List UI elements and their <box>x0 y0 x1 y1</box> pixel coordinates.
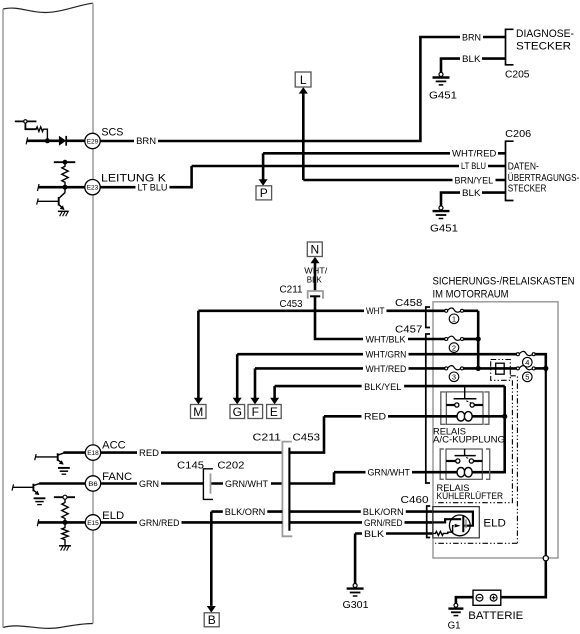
ELD second bar <box>465 519 467 528</box>
label BLK (ELD) <box>362 529 386 539</box>
wire stub above connector (N) <box>314 263 317 291</box>
svg-text:BLK: BLK <box>462 188 481 198</box>
relay U1 contact common from BLK/YEL <box>464 386 466 399</box>
svg-text:STECKER: STECKER <box>516 41 571 53</box>
wire WHT/GRN from G to fuse 4 <box>237 353 516 356</box>
inline connector C453 half (tall) <box>288 448 290 531</box>
wire GRN/WHT continues to fuse box <box>289 472 334 483</box>
svg-text:KÜHLERLÜFTER: KÜHLERLÜFTER <box>437 491 504 502</box>
arrowhead into N <box>311 257 320 264</box>
svg-text:SICHERUNGS-/RELAISKASTEN: SICHERUNGS-/RELAISKASTEN <box>433 276 575 288</box>
label BRN/YEL (C206) <box>453 175 496 185</box>
svg-text:C211: C211 <box>253 433 282 444</box>
inline connector C202 half <box>210 474 212 494</box>
wire GRN/WHT through relay2 coil <box>334 471 482 474</box>
svg-text:C205: C205 <box>505 70 530 81</box>
terminal tick E23 <box>38 184 40 191</box>
junction dot relay1 coil output <box>502 414 507 419</box>
svg-text:E18: E18 <box>87 450 99 457</box>
ELD box <box>433 507 480 538</box>
fuse F2 <box>445 336 464 340</box>
svg-text:B: B <box>208 613 216 627</box>
relay 2 connector brackets <box>440 449 490 479</box>
svg-text:4: 4 <box>525 358 529 367</box>
wire WHT from M to fuse 1 <box>198 309 444 312</box>
svg-text:E29: E29 <box>87 138 99 145</box>
battery <box>468 590 523 622</box>
wire BRN from E29 to C205 <box>100 37 506 141</box>
page box G <box>230 405 245 419</box>
svg-text:BRN/YEL: BRN/YEL <box>455 175 494 185</box>
circled number 4 <box>523 357 533 367</box>
svg-text:C202: C202 <box>217 461 244 472</box>
circled number 2 <box>449 343 459 353</box>
label RELAIS A/C-KUPPLUNG <box>433 427 505 446</box>
relay U2 radiator fan relay body <box>446 449 482 479</box>
arrowhead into G <box>233 398 242 405</box>
svg-text:E23: E23 <box>87 185 99 192</box>
connector C457 bracket <box>426 334 430 483</box>
wire RED step to E18 level <box>289 416 324 452</box>
svg-text:STECKER: STECKER <box>508 184 547 195</box>
svg-text:ELD: ELD <box>102 510 124 522</box>
svg-text:C457: C457 <box>395 325 423 336</box>
svg-text:BLK: BLK <box>307 276 323 285</box>
wire fuse5 to output junction <box>535 367 546 370</box>
terminal E15 <box>85 515 100 530</box>
bus vertical (fuses 1-3) <box>477 311 480 369</box>
relay U1 contact points <box>455 403 475 407</box>
svg-text:LT BLU: LT BLU <box>461 161 486 171</box>
E15 reference terminal <box>54 495 75 499</box>
ELD sensor circle <box>449 515 470 536</box>
arrowhead into B <box>207 606 216 613</box>
wire BLK drop to ground G301 <box>354 534 357 584</box>
svg-text:C453: C453 <box>280 299 303 310</box>
fuse/relay box outline <box>433 302 558 558</box>
inline connector C211/C453 on N wire (socket half) <box>308 291 323 299</box>
junction dot E23 <box>63 185 68 190</box>
fuse F3 <box>445 366 464 370</box>
svg-text:A/C-KUPPLUNG: A/C-KUPPLUNG <box>433 435 505 446</box>
fuse F1 <box>445 308 464 312</box>
riser to page connector M <box>197 311 200 399</box>
svg-text:LT BLU: LT BLU <box>138 182 168 192</box>
svg-text:N: N <box>310 243 319 257</box>
label RED (E18 side) <box>137 448 161 458</box>
label WHT/BLK (middle) <box>363 335 408 345</box>
page box N <box>307 242 322 257</box>
connector C460 bracket <box>427 506 431 538</box>
resistor R (E23 pull-up) <box>62 162 68 187</box>
svg-text:3: 3 <box>452 373 456 382</box>
E29 internal pull-up circuit <box>15 120 48 139</box>
svg-text:ÜBERTRAGUNGS-: ÜBERTRAGUNGS- <box>508 172 580 184</box>
relay U1 blade dash <box>466 401 471 403</box>
label LT BLU (E23) <box>136 182 170 192</box>
connector C458 bracket <box>426 307 430 328</box>
page box B <box>204 613 219 627</box>
label WHT/RED (middle) <box>363 364 409 374</box>
svg-text:BLK: BLK <box>462 54 481 64</box>
svg-text:GRN/RED: GRN/RED <box>364 518 403 528</box>
svg-text:BLK: BLK <box>364 529 384 539</box>
page box L <box>295 72 311 87</box>
riser to page connector E <box>273 386 276 398</box>
svg-text:GRN/WHT: GRN/WHT <box>225 479 268 489</box>
box exit terminal circle <box>543 556 548 561</box>
svg-text:BLK/ORN: BLK/ORN <box>225 507 265 517</box>
terminal E18 <box>85 445 100 460</box>
label DIAGNOSE-STECKER <box>516 28 574 53</box>
resistor (E15 pull-up) <box>62 499 68 522</box>
wire BRN/YEL from node L to C206 <box>303 179 505 182</box>
bus vertical BLK/YEL to relay coils <box>482 386 504 472</box>
dash-dot ELD region boundary <box>435 542 517 544</box>
chassis ground (E15 divider) <box>59 546 71 551</box>
label BLK/ORN (fuse box side) <box>361 507 406 517</box>
svg-text:ACC: ACC <box>102 440 126 452</box>
svg-text:BATTERIE: BATTERIE <box>468 610 523 622</box>
svg-text:WHT/: WHT/ <box>304 267 328 276</box>
svg-text:BRN: BRN <box>136 136 156 146</box>
svg-text:IM MOTORRAUM: IM MOTORRAUM <box>433 289 509 301</box>
svg-text:WHT: WHT <box>366 306 385 316</box>
terminal tick E15 <box>37 519 39 526</box>
svg-text:L: L <box>300 73 307 87</box>
wire into E23 <box>38 186 86 189</box>
label RED (fuse box side) <box>362 412 389 422</box>
ground (B6 emitter) <box>34 498 46 504</box>
ELD bottom path BLK with sense resistor <box>433 524 461 536</box>
wire BLK/ORN drop to page connector B <box>210 512 213 606</box>
label GRN <box>137 479 161 489</box>
label BLK (C206) <box>460 188 482 198</box>
svg-text:GRN/RED: GRN/RED <box>139 518 180 528</box>
ELD top path BLK/ORN <box>433 512 473 526</box>
circled number 1 <box>449 314 459 324</box>
svg-text:DIAGNOSE-: DIAGNOSE- <box>516 28 574 40</box>
wire from transistor to B6 <box>39 482 86 485</box>
circled number 5 <box>523 372 533 382</box>
wire RED through relay1 coil <box>324 415 505 418</box>
wire to battery plus <box>501 561 546 597</box>
wire fuse3 through breaker to fuse 5 <box>463 367 516 370</box>
junction dot E29 circuit <box>45 138 50 143</box>
wire BLK from G301 to ELD <box>355 532 433 535</box>
fuse F5 <box>516 366 535 370</box>
junction dot bus/WHT-RED <box>476 366 481 371</box>
label BRN (C205) <box>460 32 483 42</box>
svg-text:G451: G451 <box>430 224 458 235</box>
wire GRN/WHT from C202 to relay 2 <box>211 482 283 485</box>
svg-text:WHT/GRN: WHT/GRN <box>366 350 407 360</box>
svg-text:G1: G1 <box>448 621 461 632</box>
label BLK/YEL <box>362 382 405 392</box>
svg-text:E15: E15 <box>87 520 99 527</box>
svg-text:E: E <box>270 405 278 419</box>
page box P <box>256 186 272 200</box>
wire WHT/RED from node P to C206 <box>263 152 505 155</box>
relay U1 coil <box>457 412 472 421</box>
svg-text:G301: G301 <box>343 600 369 611</box>
label GRN/WHT (middle) <box>223 479 271 489</box>
relay U2 coil <box>457 468 472 477</box>
dash-dot relay region boundary <box>436 380 513 502</box>
label GRN/WHT (fuse box side) <box>366 467 413 477</box>
junction dot fuse4/5 output <box>543 366 548 371</box>
terminal E29 <box>85 133 100 148</box>
svg-text:G: G <box>233 405 242 419</box>
label SICHERUNGS-/RELAISKASTEN IM MOTORRAUM <box>433 276 575 301</box>
terminal tick E29 <box>26 137 28 144</box>
wire BLK from C206 to ground G451 <box>441 193 506 206</box>
ground G451 (second) <box>430 206 458 235</box>
wire to page connector P <box>262 153 265 180</box>
svg-text:FANC: FANC <box>102 471 132 483</box>
label RELAIS KUEHLERLUEFTER <box>437 483 504 502</box>
ground (E18 emitter) <box>58 468 70 474</box>
arrowhead into E <box>270 398 279 405</box>
wire fuse1 to bus <box>463 309 478 312</box>
arrowhead into P <box>259 179 268 186</box>
wire riser to page connector L <box>302 93 305 180</box>
svg-text:RED: RED <box>139 448 160 458</box>
breaker dash-dot box <box>491 360 511 381</box>
svg-text:F: F <box>252 405 259 419</box>
ECM/PCM control unit box (torn edges) <box>3 3 93 628</box>
junction dot E15 <box>63 520 68 525</box>
page box M <box>191 405 207 419</box>
wire RED from E18 <box>100 451 282 454</box>
riser to page connector F <box>254 368 257 398</box>
svg-text:2: 2 <box>452 343 456 352</box>
wire BLK from C205 to ground G451 <box>441 59 506 73</box>
ELD gate bar <box>462 516 464 532</box>
relay U2 contact points <box>456 459 474 463</box>
arrowhead into F <box>251 398 260 405</box>
E23 internal circuit: top rail <box>54 160 76 165</box>
wire LT BLU from E23 riser to C206 <box>192 165 506 168</box>
label WHT/BLK (N wire) <box>304 267 328 285</box>
svg-text:C458: C458 <box>395 298 423 309</box>
wire LEITUNG K riser <box>100 166 191 187</box>
breaker element box on WHT/RED line <box>496 363 505 374</box>
svg-text:C460: C460 <box>401 495 430 506</box>
diode D (SCS line) <box>59 136 86 146</box>
label WHT/RED (C206) <box>450 149 498 159</box>
svg-text:ELD: ELD <box>483 518 506 530</box>
inline connector C211/C453 on N wire (plug half) <box>310 295 320 297</box>
relay U1 A/C clutch relay body <box>446 392 483 424</box>
svg-text:1: 1 <box>452 315 456 324</box>
inline connector C145 half <box>203 469 213 500</box>
circled number 3 <box>449 372 459 382</box>
chassis ground (E23 emitter) <box>58 211 69 216</box>
label WHT <box>364 306 387 316</box>
inline connector C211 half (tall) <box>282 442 292 537</box>
label WHT/GRN <box>363 350 409 360</box>
relay U1 contact bar <box>454 398 477 400</box>
svg-text:C453: C453 <box>293 433 321 444</box>
connector C206 bracket <box>506 141 514 200</box>
relay U2 contact stubs <box>446 460 482 462</box>
dash-dot branch from breaker box <box>510 376 517 544</box>
arrowhead into M <box>194 398 203 405</box>
svg-text:WHT/RED: WHT/RED <box>452 149 497 159</box>
wire GRN/RED from E15 to ELD <box>100 521 433 524</box>
label GRN/RED (left) <box>137 518 182 528</box>
label DATEN-UEBERTRAGUNGS-STECKER <box>508 162 580 195</box>
svg-text:C211: C211 <box>280 285 303 296</box>
svg-text:GRN/WHT: GRN/WHT <box>368 467 411 477</box>
svg-text:C145: C145 <box>177 461 204 472</box>
ground G1 <box>448 603 464 631</box>
ELD mid path GRN/RED <box>433 519 461 522</box>
svg-text:G451: G451 <box>429 91 457 102</box>
wire BLK/ORN to ELD <box>211 510 433 513</box>
svg-text:DATEN-: DATEN- <box>508 162 539 173</box>
terminal E23 <box>85 180 100 195</box>
svg-text:P: P <box>260 186 268 200</box>
svg-text:WHT/BLK: WHT/BLK <box>366 335 406 345</box>
wire WHT/BLK from N to C457 <box>315 296 445 339</box>
label BLK/ORN (left) <box>223 507 267 517</box>
svg-text:WHT/RED: WHT/RED <box>366 364 407 374</box>
B6 transistor driver <box>12 483 40 495</box>
wire fuse4 to corner <box>535 354 546 368</box>
wire fuse2 to bus <box>463 338 478 341</box>
svg-text:SCS: SCS <box>101 127 123 139</box>
transistor Q (LEITUNG K driver) <box>37 187 65 210</box>
resistor (E15 lower divider) <box>62 522 68 545</box>
wire battery feed down from fuses <box>545 370 547 556</box>
wire WHT/RED from F into fuse box <box>255 367 445 370</box>
svg-text:GRN: GRN <box>139 479 159 489</box>
arrowhead into L <box>299 87 308 94</box>
svg-text:C206: C206 <box>505 129 531 140</box>
relay 1 connector brackets <box>441 392 489 424</box>
relay U1 contact stubs <box>446 404 483 406</box>
page box E <box>267 405 282 419</box>
label GRN/RED (fuse box side) <box>362 518 405 528</box>
svg-text:BLK/YEL: BLK/YEL <box>364 382 401 392</box>
relay U2 contact common <box>464 449 466 456</box>
svg-text:BRN: BRN <box>462 32 481 42</box>
svg-text:BLK/ORN: BLK/ORN <box>363 507 404 517</box>
fuse F4 <box>516 351 535 355</box>
wire from transistor to E18 <box>64 451 87 454</box>
ground G301 <box>343 584 369 612</box>
label BLK (C205) <box>460 54 482 64</box>
wire into E15 <box>38 521 86 524</box>
page box F <box>248 405 263 419</box>
terminal B6 <box>85 476 100 491</box>
ground G451 (top) <box>429 72 457 101</box>
wire battery minus to ground G1 <box>456 597 473 603</box>
label LT BLU (C206) <box>459 161 488 171</box>
wire GRN from B6 to C145 <box>100 482 203 485</box>
wire into E29 <box>27 140 59 143</box>
wire BLK/YEL from E to relay 1 <box>275 385 505 388</box>
relay U2 blade dash <box>466 457 471 459</box>
connector C205 bracket <box>506 29 514 65</box>
relay U2 contact bar <box>455 455 476 457</box>
svg-text:M: M <box>193 405 203 419</box>
svg-text:5: 5 <box>525 373 529 382</box>
label BRN (E29) <box>134 136 158 146</box>
svg-text:RED: RED <box>364 412 387 422</box>
junction dot bus/fuse2 <box>476 336 481 341</box>
riser to page connector G <box>236 354 239 398</box>
E18 transistor driver <box>35 453 64 465</box>
svg-text:B6: B6 <box>88 481 98 488</box>
